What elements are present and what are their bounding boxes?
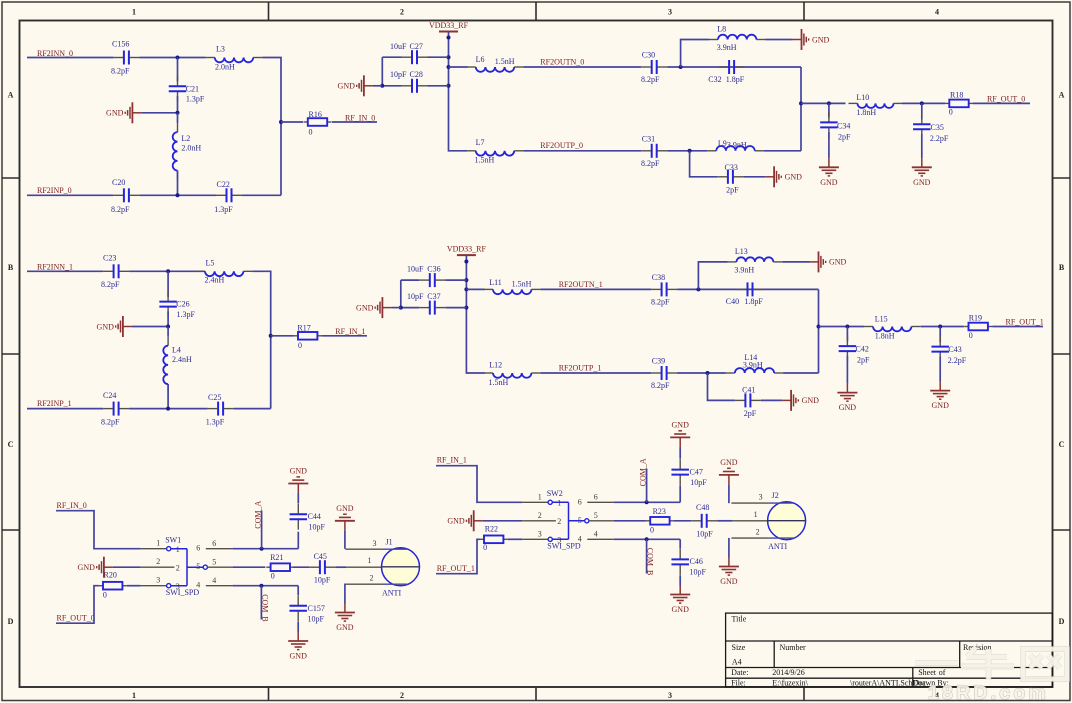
capacitor C22 [216, 188, 242, 202]
svg-text:A4: A4 [732, 658, 742, 667]
ground GND under C43 [930, 382, 950, 411]
svg-text:2.2pF: 2.2pF [930, 134, 949, 143]
junction COM_A [260, 547, 264, 551]
svg-text:C37: C37 [427, 292, 440, 301]
wire L8 to GND [765, 39, 792, 41]
svg-text:L15: L15 [875, 315, 888, 324]
inductor L9 [707, 146, 763, 151]
svg-text:8.2pF: 8.2pF [651, 298, 670, 307]
svg-text:1.8nH: 1.8nH [875, 331, 895, 340]
svg-text:RF2OUTP_1: RF2OUTP_1 [559, 364, 602, 373]
svg-text:1.3pF: 1.3pF [177, 310, 196, 319]
svg-text:R20: R20 [104, 570, 117, 579]
junction C43 [938, 325, 942, 329]
wire R16 to RF_IN_0 [332, 121, 377, 123]
svg-text:R17: R17 [297, 323, 310, 332]
svg-text:10pF: 10pF [690, 568, 707, 577]
wire rail to L6 [449, 66, 468, 68]
power ground GND row B input [97, 316, 132, 337]
svg-text:D: D [1059, 617, 1065, 626]
junction C35 [920, 101, 924, 105]
svg-text:8.2pF: 8.2pF [111, 67, 130, 76]
wire SW1 pin4 row [232, 585, 298, 587]
svg-text:R19: R19 [969, 314, 982, 323]
svg-text:C156: C156 [112, 40, 129, 49]
wire RF2INP_1 to C24 [27, 408, 103, 410]
power ground GND at SW2 pin2 [447, 510, 482, 531]
wire node to L2 [177, 113, 179, 123]
power ground GND after L8 [793, 29, 830, 50]
svg-text:COM_A: COM_A [254, 500, 263, 528]
svg-text:GND: GND [106, 109, 124, 118]
svg-text:0: 0 [309, 128, 313, 137]
resistor R17 [294, 332, 322, 340]
svg-text:1: 1 [557, 499, 561, 508]
svg-text:3.9nH: 3.9nH [734, 266, 754, 275]
svg-text:C28: C28 [410, 70, 423, 79]
capacitor C36 [419, 273, 445, 287]
svg-text:File:: File: [731, 679, 746, 688]
wire C32/L9 vertical [800, 67, 802, 151]
capacitor C31 [641, 144, 667, 158]
wire C27 to rail [428, 56, 449, 58]
svg-text:R16: R16 [309, 110, 322, 119]
svg-text:0: 0 [969, 331, 973, 340]
power symbol VDD33_RF row B [447, 245, 487, 256]
svg-text:Sheet: Sheet [918, 668, 937, 677]
wire C23 to L5 [129, 270, 204, 272]
wire L15 to R19 [921, 326, 964, 328]
RF switch SW2 [522, 489, 614, 551]
svg-text:3: 3 [373, 539, 377, 548]
wire gnd to node [141, 112, 177, 114]
svg-text:L12: L12 [489, 361, 502, 370]
pin J2.1 [732, 520, 768, 522]
inverted ground GND above J2 [719, 458, 739, 485]
svg-text:RF_OUT_0: RF_OUT_0 [987, 95, 1025, 104]
inverted ground GND above C44 [288, 467, 308, 494]
svg-text:L5: L5 [206, 258, 215, 267]
svg-text:J1: J1 [386, 537, 393, 546]
inductor L14 [726, 368, 783, 373]
svg-text:Title: Title [732, 614, 747, 623]
capacitor C27 [402, 50, 428, 64]
wire C28 to rail [428, 85, 449, 87]
capacitor C39 [651, 366, 677, 380]
capacitor C21 [169, 76, 187, 102]
svg-text:6: 6 [578, 497, 582, 506]
svg-text:1.8pF: 1.8pF [744, 297, 763, 306]
svg-text:3: 3 [668, 691, 672, 700]
wire to R17 [271, 335, 294, 337]
capacitor C34 [820, 112, 838, 138]
wire gnd stub [373, 85, 382, 87]
svg-text:C22: C22 [217, 180, 230, 189]
ground GND under C42 [837, 384, 857, 413]
power ground GND after C41 [782, 390, 819, 411]
border column tick [535, 2, 537, 21]
svg-text:1.8nH: 1.8nH [856, 108, 876, 117]
svg-text:8.2pF: 8.2pF [641, 75, 660, 84]
junction C27 row [447, 55, 451, 59]
resistor R21 [266, 563, 294, 571]
svg-text:GND: GND [356, 303, 374, 312]
wire left to C37 [401, 307, 420, 309]
svg-text:10pF: 10pF [390, 70, 407, 79]
svg-text:E:\fuzexin\: E:\fuzexin\ [772, 679, 808, 688]
resistor R23 [646, 517, 674, 525]
svg-text:COM_B: COM_B [646, 548, 655, 576]
junction C21/L2/GND [176, 111, 180, 115]
svg-text:SW2: SW2 [547, 489, 563, 498]
svg-text:10pF: 10pF [314, 576, 331, 585]
resistor R18 [945, 100, 973, 108]
wire C46 to GND [679, 575, 681, 586]
svg-text:3.9nH: 3.9nH [727, 141, 747, 150]
svg-text:5: 5 [212, 557, 216, 566]
svg-text:RF2INP_0: RF2INP_0 [37, 186, 72, 195]
ground GND under C157 [288, 632, 308, 661]
wire down to C33 [690, 151, 718, 177]
svg-text:L13: L13 [735, 247, 748, 256]
wire R20 to SW1 pin3 [127, 585, 141, 587]
wire C34 lower [828, 132, 830, 158]
capacitor C33 [717, 170, 743, 184]
svg-text:1.5nH: 1.5nH [489, 378, 509, 387]
svg-text:10uF: 10uF [390, 42, 407, 51]
wire C43 upper [939, 327, 941, 342]
border column tick [268, 2, 270, 21]
svg-text:C157: C157 [308, 604, 325, 613]
svg-text:GND: GND [720, 458, 738, 467]
svg-text:2: 2 [538, 511, 542, 520]
svg-text:C25: C25 [208, 393, 221, 402]
wire VDD rail vertical row B [466, 255, 485, 373]
capacitor C20 [113, 188, 139, 202]
capacitor C37 [419, 301, 445, 315]
svg-text:3: 3 [759, 493, 763, 502]
svg-text:8.2pF: 8.2pF [111, 205, 130, 214]
wire C22 to corner [242, 194, 281, 196]
capacitor C48 [691, 514, 717, 528]
svg-text:C45: C45 [314, 552, 327, 561]
svg-text:RF_OUT_1: RF_OUT_1 [1006, 318, 1044, 327]
junction COM_B [259, 584, 263, 588]
wire RF_IN_1 to SW2 pin1 [436, 466, 522, 503]
svg-text:C38: C38 [652, 273, 665, 282]
svg-text:R21: R21 [270, 553, 283, 562]
wire C24 to C25 [129, 408, 208, 410]
svg-text:C44: C44 [308, 512, 321, 521]
svg-text:D: D [8, 617, 14, 626]
power ground GND after C33 [765, 166, 802, 187]
svg-text:GND: GND [336, 504, 354, 513]
junction INN1 node [166, 269, 170, 273]
svg-text:SWI_SPD: SWI_SPD [547, 542, 581, 551]
inverted ground GND above J1 [335, 504, 355, 531]
svg-text:GND: GND [820, 178, 838, 187]
svg-text:L10: L10 [856, 93, 869, 102]
junction main node A [799, 101, 803, 105]
wire RF2INN_1 to C23 [27, 270, 103, 272]
wire C30 to C32 node [667, 66, 801, 68]
capacitor C28 [402, 79, 428, 93]
wire C41 to GND [761, 399, 782, 401]
svg-text:0: 0 [650, 525, 654, 534]
svg-text:0: 0 [483, 543, 487, 552]
wire C36 to rail [445, 279, 466, 281]
junction C41 branch [706, 371, 710, 375]
svg-text:C: C [1059, 440, 1065, 449]
svg-text:VDD33_RF: VDD33_RF [429, 21, 469, 30]
wire pin4 corner down to C46 [679, 539, 681, 548]
svg-text:RF_IN_0: RF_IN_0 [345, 113, 375, 122]
svg-text:2: 2 [156, 557, 160, 566]
wire J2 pin3 riser [728, 484, 730, 503]
svg-text:6: 6 [212, 539, 216, 548]
wire L9 to corner up [764, 150, 801, 152]
wire R19 to RF_OUT_1 [992, 326, 1043, 328]
svg-text:GND: GND [932, 401, 950, 410]
border row tick [2, 353, 20, 355]
wire COM_B stub 2 [646, 539, 648, 573]
junction RF_IN_1 node [269, 334, 273, 338]
svg-text:0: 0 [271, 572, 275, 581]
inverted ground GND above C47 [670, 420, 690, 447]
svg-text:RF2OUTN_0: RF2OUTN_0 [540, 57, 584, 66]
wire C38 to C40 node [677, 288, 818, 290]
svg-text:COM_B: COM_B [260, 594, 269, 622]
svg-text:L8: L8 [717, 24, 726, 33]
svg-text:L2: L2 [181, 134, 190, 143]
svg-text:VDD33_RF: VDD33_RF [447, 245, 487, 254]
power ground GND bypass row A [338, 75, 373, 96]
svg-text:8.2pF: 8.2pF [101, 418, 120, 427]
wire left to C36 [401, 279, 420, 281]
capacitor C38 [651, 282, 677, 296]
wire C26 to gnd node [167, 311, 169, 326]
wire R23 to C48 [674, 520, 691, 522]
svg-text:3: 3 [668, 8, 672, 17]
svg-text:C23: C23 [103, 254, 116, 263]
wire COM_A stub 2 [646, 469, 648, 503]
wire J2 pin2 drop [728, 538, 730, 558]
ground GND under C34 [819, 158, 839, 187]
svg-text:2.4nH: 2.4nH [205, 276, 225, 285]
inductor L13 [728, 257, 783, 262]
wire left to C27 [382, 56, 401, 58]
svg-text:GND: GND [785, 173, 803, 182]
svg-text:C21: C21 [186, 84, 199, 93]
svg-text:ANTI: ANTI [768, 542, 787, 551]
svg-text:GND: GND [913, 178, 931, 187]
svg-text:2: 2 [756, 528, 760, 537]
wire R18 to RF_OUT_0 [973, 102, 1030, 104]
wire gnd to SW2 pin2 [483, 520, 523, 522]
wire RF_IN_0 to SW1 pin1 [56, 511, 141, 549]
wire L11 to C38 [540, 288, 651, 290]
inductor L8 [709, 35, 765, 40]
svg-text:C47: C47 [690, 467, 703, 476]
svg-text:2.2pF: 2.2pF [948, 356, 967, 365]
junction INP1 node [166, 407, 170, 411]
capacitor C43 [931, 336, 949, 362]
svg-text:1: 1 [132, 691, 136, 700]
svg-text:1: 1 [132, 8, 136, 17]
wire C42 lower [846, 356, 848, 384]
junction C28 row [447, 84, 451, 88]
svg-text:C26: C26 [176, 300, 189, 309]
svg-text:2.0nH: 2.0nH [215, 62, 235, 71]
wire RF_OUT_0 to R20 [56, 586, 99, 624]
svg-text:10pF: 10pF [690, 478, 707, 487]
power ground GND bypass row B [356, 297, 391, 318]
svg-text:GND: GND [812, 35, 830, 44]
svg-text:J2: J2 [772, 491, 779, 500]
svg-text:4: 4 [935, 8, 939, 17]
wire down to C41 [708, 373, 735, 400]
svg-text:1.5nH: 1.5nH [495, 57, 515, 66]
svg-text:L11: L11 [489, 278, 502, 287]
capacitor C25 [208, 402, 234, 416]
svg-text:RF_OUT_0: RF_OUT_0 [57, 614, 95, 623]
svg-text:B: B [8, 263, 14, 272]
svg-text:A: A [8, 91, 14, 100]
svg-text:C20: C20 [112, 178, 125, 187]
capacitor C157 [289, 595, 307, 621]
power ground GND after L13 [810, 251, 847, 272]
svg-text:RF2INP_1: RF2INP_1 [37, 399, 72, 408]
ground GND under J2 pin2 [719, 558, 739, 587]
capacitor C156 [113, 51, 139, 65]
svg-text:RF2INN_0: RF2INN_0 [37, 49, 73, 58]
wire up to L13 [698, 262, 727, 290]
svg-text:2: 2 [400, 691, 404, 700]
capacitor C35 [913, 114, 931, 140]
title block [726, 613, 1053, 687]
resistor R16 [304, 118, 332, 126]
svg-text:3.9nH: 3.9nH [743, 361, 763, 370]
svg-text:of: of [939, 668, 946, 677]
svg-text:C34: C34 [837, 121, 850, 130]
inductor L2 [173, 123, 178, 179]
svg-text:Size: Size [732, 643, 746, 652]
svg-text:C24: C24 [103, 391, 116, 400]
svg-text:1.3pF: 1.3pF [186, 95, 205, 104]
resistor R22 [480, 536, 508, 544]
wire node to L10 [801, 102, 846, 104]
svg-text:RF_OUT_1: RF_OUT_1 [437, 564, 475, 573]
svg-text:8.2pF: 8.2pF [651, 381, 670, 390]
svg-text:C33: C33 [725, 163, 738, 172]
svg-text:4: 4 [212, 576, 216, 585]
wire pin6 corner up to C44 [297, 532, 299, 549]
wire C40/L14 vertical [818, 289, 820, 373]
wire C48 to J2 [717, 520, 732, 522]
wire COM_A stub [261, 511, 263, 549]
wire R17 to RF_IN_1 [322, 335, 367, 337]
svg-text:2: 2 [370, 574, 374, 583]
svg-text:L4: L4 [172, 345, 181, 354]
border row tick [2, 177, 20, 179]
inductor L15 [864, 327, 920, 332]
junction C36 row [464, 278, 468, 282]
svg-text:10pF: 10pF [308, 615, 325, 624]
svg-text:Date:: Date: [731, 668, 748, 677]
svg-text:C30: C30 [642, 51, 655, 60]
junction L11 row [464, 287, 468, 291]
junction below VDD bar [447, 36, 451, 40]
antenna connector J1 [345, 537, 419, 597]
svg-text:3: 3 [156, 576, 160, 585]
wire L7 to C31 [523, 150, 641, 152]
power symbol VDD33_RF row A [429, 21, 469, 32]
svg-text:1.3pF: 1.3pF [206, 418, 225, 427]
svg-text:1.5nH: 1.5nH [475, 155, 495, 164]
svg-text:SW1: SW1 [165, 535, 181, 544]
svg-text:C36: C36 [427, 265, 440, 274]
svg-text:0: 0 [298, 341, 302, 350]
wire RF_OUT_1 to R22 [436, 539, 480, 573]
wire C33 to GND [743, 176, 765, 178]
svg-text:0: 0 [103, 591, 107, 600]
svg-text:2.4nH: 2.4nH [172, 355, 192, 364]
junction RF_IN_0 node [279, 120, 283, 124]
wire gnd to SW1 pin2 [113, 566, 141, 568]
svg-text:GND: GND [720, 577, 738, 586]
svg-text:RF2OUTP_0: RF2OUTP_0 [540, 141, 583, 150]
svg-text:1.3pF: 1.3pF [214, 205, 233, 214]
wire up to L8 [681, 40, 709, 68]
pin J1.1 [346, 566, 382, 568]
svg-text:1: 1 [754, 510, 758, 519]
wire L13 to GND [782, 261, 809, 263]
wire C34 upper [828, 103, 830, 117]
power ground GND left of node [106, 102, 141, 123]
svg-text:GND: GND [672, 605, 690, 614]
border row tick [2, 529, 20, 531]
svg-text:2pF: 2pF [726, 185, 739, 194]
svg-text:R23: R23 [653, 507, 666, 516]
wire node to L15 [819, 326, 865, 328]
wire COM_B stub [260, 586, 262, 620]
svg-text:GND: GND [839, 403, 857, 412]
capacitor C42 [839, 336, 857, 362]
antenna connector J2 [731, 491, 805, 551]
wire SW2 pin6 row [614, 501, 680, 503]
svg-text:6: 6 [196, 544, 200, 553]
wire C47 to GND up [679, 447, 681, 459]
wire L3 corner down [262, 58, 281, 196]
svg-text:GND: GND [802, 396, 820, 405]
svg-text:4: 4 [594, 530, 598, 539]
svg-text:R18: R18 [950, 91, 963, 100]
wire L14 to corner up [783, 372, 818, 374]
svg-text:C43: C43 [948, 345, 961, 354]
svg-text:3.9nH: 3.9nH [717, 43, 737, 52]
ground GND under J1 pin2 [335, 604, 355, 633]
inductor L10 [849, 103, 903, 108]
svg-text:10pF: 10pF [407, 292, 424, 301]
svg-text:C35: C35 [931, 123, 944, 132]
svg-text:L9: L9 [718, 139, 727, 148]
svg-text:2pF: 2pF [744, 409, 757, 418]
junction GND bypass B [399, 306, 403, 310]
svg-text:1: 1 [368, 556, 372, 565]
svg-text:1.8pF: 1.8pF [726, 75, 745, 84]
svg-text:10pF: 10pF [696, 529, 713, 538]
svg-text:C40: C40 [726, 297, 739, 306]
